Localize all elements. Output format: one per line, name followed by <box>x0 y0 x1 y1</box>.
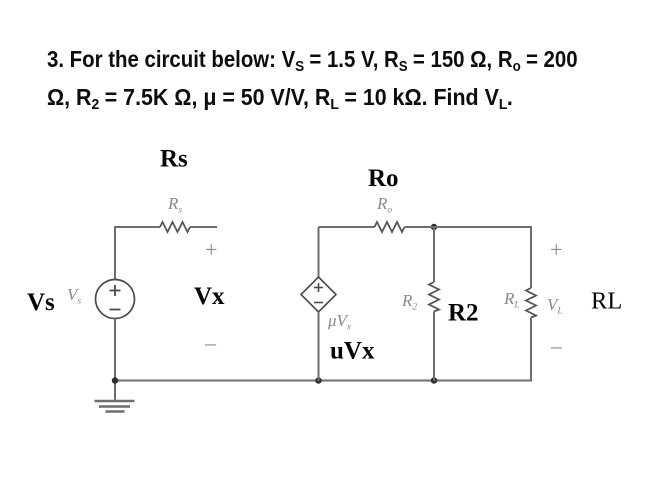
svg-text:R2: R2 <box>448 300 479 327</box>
svg-text:Rs: Rs <box>160 146 188 173</box>
dependent source uVx (diamond with polarity marks) <box>301 277 336 312</box>
wire RL branch bottom <box>530 318 532 382</box>
wire from Rs to open terminal (node Vx +) <box>190 226 217 228</box>
svg-text:–: – <box>550 333 563 358</box>
wire R2 branch bottom <box>433 312 435 382</box>
resistor R2 <box>429 282 439 312</box>
svg-text:+: + <box>550 237 562 262</box>
svg-text:Vs: Vs <box>67 285 81 307</box>
node junction dot R2 top <box>431 224 437 230</box>
voltage source Vs <box>96 280 135 319</box>
svg-text:–: – <box>204 330 217 355</box>
svg-text:Vs: Vs <box>27 289 55 316</box>
svg-text:Vx: Vx <box>194 283 225 310</box>
node junction dot dependent source bottom <box>315 377 321 383</box>
svg-text:Ro: Ro <box>368 165 399 192</box>
wire from dependent source top to resistor Ro <box>319 226 375 228</box>
svg-text:RL: RL <box>591 288 622 315</box>
svg-text:R2: R2 <box>401 291 417 313</box>
wire RL branch top <box>530 226 532 288</box>
node junction dot at ground (bottom rail left) <box>112 377 118 383</box>
node junction dot R2 bottom <box>431 377 437 383</box>
wire dependent source bottom <box>318 312 320 381</box>
wire from Vs top terminal up and right to resistor Rs <box>115 227 160 280</box>
svg-text:RL: RL <box>503 289 520 311</box>
resistor Ro <box>375 222 405 232</box>
svg-text:μVx: μVx <box>327 311 352 333</box>
ground <box>95 381 135 412</box>
wire from Ro through node at R2 to RL top corner <box>405 226 532 228</box>
wire dependent source branch top <box>318 227 320 277</box>
wire R2 branch top <box>433 227 435 282</box>
wire bottom rail <box>114 379 531 381</box>
svg-text:VL: VL <box>547 295 563 317</box>
svg-text:uVx: uVx <box>330 338 375 365</box>
svg-text:Rs: Rs <box>167 194 182 216</box>
svg-text:Ro: Ro <box>376 194 392 216</box>
svg-text:+: + <box>205 237 217 262</box>
wire source bottom to ground node <box>114 319 116 382</box>
resistor Rs <box>160 222 190 232</box>
resistor RL <box>526 288 536 318</box>
